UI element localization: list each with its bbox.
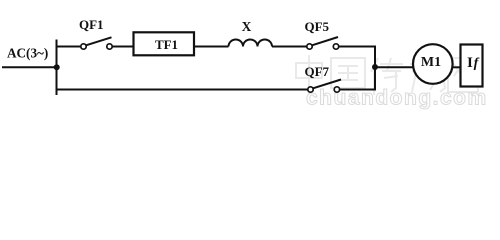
svg-text:QF7: QF7 xyxy=(305,64,330,79)
inductor X xyxy=(229,40,273,47)
svg-text:QF5: QF5 xyxy=(305,19,330,34)
wire: QF7 to right bus xyxy=(339,89,376,91)
char guo xyxy=(331,58,365,88)
wire: bus to motor xyxy=(375,66,414,68)
svg-text:M1: M1 xyxy=(421,55,441,70)
svg-text:QF1: QF1 xyxy=(79,17,104,32)
svg-text:AC(3~): AC(3~) xyxy=(7,46,48,61)
wire: QF1 to TF1 xyxy=(112,46,134,48)
breaker QF1 xyxy=(81,44,112,49)
wire: motor to If box xyxy=(452,66,461,68)
wire: TF1 to inductor xyxy=(193,46,229,48)
char wang xyxy=(448,58,478,92)
breaker QF5 xyxy=(307,44,339,49)
junction dot right xyxy=(372,64,378,70)
svg-text:X: X xyxy=(242,19,252,34)
svg-text:I: I xyxy=(467,55,473,71)
wire: AC input xyxy=(2,66,57,68)
char chuan xyxy=(371,58,403,95)
circuit xyxy=(2,40,461,96)
wire: bottom branch to QF7 xyxy=(56,89,308,91)
svg-text:chuandong.com: chuandong.com xyxy=(306,87,488,110)
wire: inductor to QF5 xyxy=(272,46,307,48)
wire: top branch to QF1 xyxy=(56,46,81,48)
watermark: Chinese characters 中国传动网 (faint outline) xyxy=(296,55,478,95)
char dong xyxy=(410,58,445,92)
transformer box TF1 xyxy=(134,32,195,55)
left bus xyxy=(56,40,58,96)
junction dot left xyxy=(54,64,60,70)
svg-text:TF1: TF1 xyxy=(155,37,178,52)
motor M1 xyxy=(413,44,453,84)
field box If xyxy=(461,45,483,87)
breaker QF7 xyxy=(308,87,340,92)
char zhong xyxy=(296,55,322,95)
wire: QF5 to right bus corner, then down xyxy=(339,47,375,90)
